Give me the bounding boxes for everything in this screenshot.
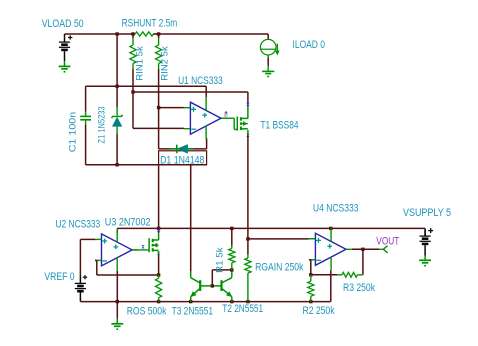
svg-text:R3 250k: R3 250k xyxy=(343,282,375,294)
svg-text:Z1 1N5233: Z1 1N5233 xyxy=(96,106,106,143)
svg-text:T1 BSS84: T1 BSS84 xyxy=(260,120,298,132)
svg-text:U1 NCS333: U1 NCS333 xyxy=(178,75,223,87)
svg-text:VREF 0: VREF 0 xyxy=(44,271,74,283)
svg-text:RGAIN 250k: RGAIN 250k xyxy=(255,262,304,274)
svg-text:T2 2N5551: T2 2N5551 xyxy=(222,303,263,315)
svg-text:U2 NCS333: U2 NCS333 xyxy=(56,219,101,231)
svg-text:VLOAD 50: VLOAD 50 xyxy=(42,18,84,30)
svg-text:RIN2 5k: RIN2 5k xyxy=(159,46,169,81)
svg-text:RSHUNT 2.5m: RSHUNT 2.5m xyxy=(122,17,178,29)
svg-text:T3 2N5551: T3 2N5551 xyxy=(172,306,213,318)
svg-text:U4 NCS333: U4 NCS333 xyxy=(313,203,359,215)
svg-text:D1 1N4148: D1 1N4148 xyxy=(160,154,204,166)
svg-text:ILOAD 0: ILOAD 0 xyxy=(293,39,326,51)
svg-text:ROS 500k: ROS 500k xyxy=(127,306,167,318)
svg-text:RIN1 5k: RIN1 5k xyxy=(134,46,144,81)
svg-text:C1 100n: C1 100n xyxy=(68,112,78,153)
svg-text:VSUPPLY 5: VSUPPLY 5 xyxy=(403,207,451,219)
svg-text:VOUT: VOUT xyxy=(376,235,399,247)
svg-text:R2 250k: R2 250k xyxy=(303,305,335,317)
svg-text:R1 5k: R1 5k xyxy=(215,247,225,273)
svg-text:U3 2N7002: U3 2N7002 xyxy=(105,216,151,228)
